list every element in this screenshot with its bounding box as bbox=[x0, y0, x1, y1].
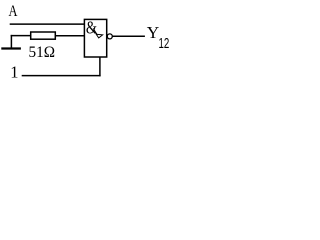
svg-text:51Ω: 51Ω bbox=[29, 44, 56, 61]
svg-text:1: 1 bbox=[10, 63, 18, 82]
wire resistor to gate lower input bbox=[55, 35, 85, 37]
svg-text:A: A bbox=[9, 3, 18, 20]
wire from input 1 bbox=[22, 75, 101, 77]
input terminal bar bbox=[1, 47, 21, 49]
svg-text:12: 12 bbox=[159, 36, 170, 52]
terminal vertical wire bbox=[10, 35, 12, 48]
vertical wire into gate bottom bbox=[99, 57, 101, 77]
output wire bbox=[112, 35, 144, 37]
tri-state marker triangle bbox=[96, 34, 102, 38]
output negation bubble bbox=[107, 34, 112, 39]
NAND gate U1 box bbox=[84, 19, 106, 57]
svg-text:Y: Y bbox=[147, 23, 160, 42]
resistor R1 body bbox=[31, 32, 56, 39]
wire terminal to resistor bbox=[11, 35, 31, 37]
tri-state marker diagonal bbox=[93, 28, 97, 34]
wire from A to gate top input bbox=[10, 23, 85, 25]
svg-text:&: & bbox=[86, 18, 97, 38]
